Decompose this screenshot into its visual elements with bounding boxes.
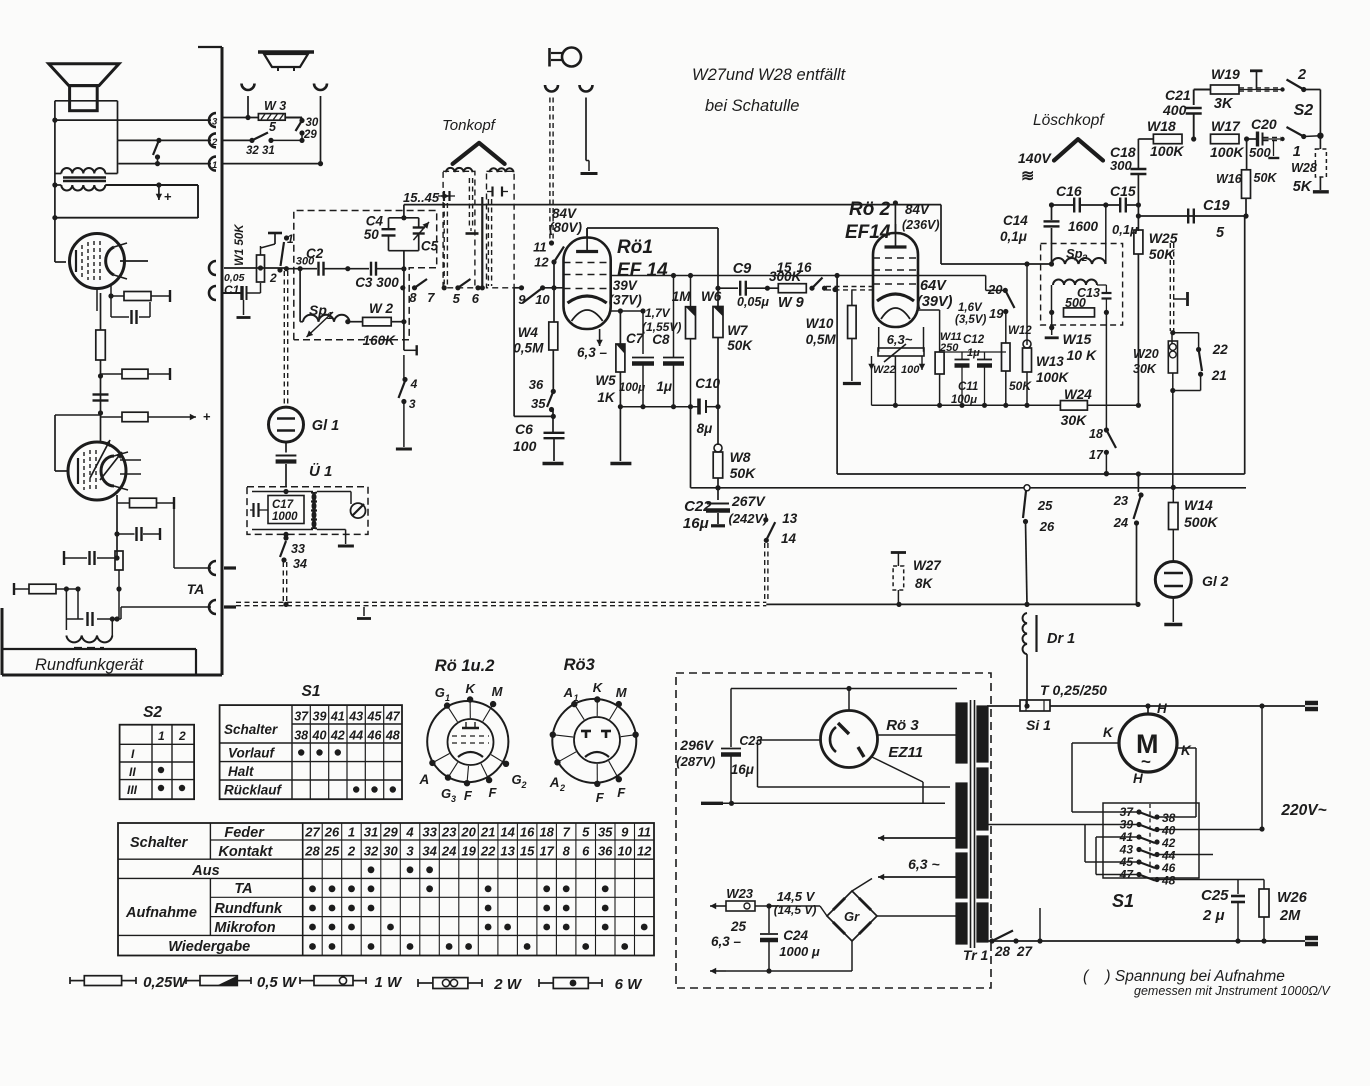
svg-text:2: 2 (1297, 67, 1306, 83)
svg-text:34: 34 (422, 844, 437, 859)
svg-text:C15: C15 (1110, 183, 1136, 199)
svg-text:50K: 50K (727, 338, 753, 353)
svg-text:W19: W19 (1211, 66, 1240, 82)
svg-text:31: 31 (364, 825, 378, 840)
svg-text:C12: C12 (963, 334, 985, 346)
svg-text:300: 300 (1110, 158, 1132, 173)
svg-text:30: 30 (306, 117, 319, 129)
svg-text:W26: W26 (1277, 890, 1308, 906)
svg-text:1: 1 (212, 160, 217, 171)
svg-text:W12: W12 (1008, 325, 1032, 337)
svg-text:Feder: Feder (224, 825, 265, 841)
svg-text:27: 27 (1016, 944, 1034, 959)
svg-text:10: 10 (617, 844, 632, 859)
svg-text:6,3 ~: 6,3 ~ (908, 856, 940, 872)
svg-text:C6: C6 (515, 421, 533, 437)
svg-text:C23: C23 (739, 734, 762, 748)
svg-text:50K: 50K (1009, 379, 1032, 393)
svg-text:TA: TA (234, 881, 252, 897)
svg-text:26: 26 (324, 825, 340, 840)
svg-text:28: 28 (994, 944, 1011, 959)
svg-text:16: 16 (520, 825, 535, 840)
svg-text:5K: 5K (1293, 179, 1313, 195)
svg-text:III: III (127, 783, 138, 797)
svg-text:(37V): (37V) (609, 292, 643, 307)
svg-text:9: 9 (621, 825, 629, 840)
svg-text:5: 5 (582, 825, 590, 840)
svg-text:S2: S2 (1294, 102, 1314, 119)
svg-text:≋: ≋ (1021, 168, 1034, 185)
svg-text:0,1μ: 0,1μ (1000, 229, 1027, 244)
svg-text:1: 1 (287, 232, 294, 246)
svg-text:100K: 100K (1150, 143, 1184, 159)
svg-text:296V: 296V (679, 737, 714, 753)
svg-text:500K: 500K (1184, 514, 1218, 530)
svg-text:W10: W10 (806, 316, 834, 331)
svg-text:14,5 V: 14,5 V (777, 889, 816, 904)
svg-text:F: F (617, 785, 626, 800)
svg-text:15..45: 15..45 (403, 190, 440, 205)
svg-text:20: 20 (987, 282, 1003, 297)
svg-text:M: M (492, 684, 504, 699)
svg-text:18: 18 (539, 825, 554, 840)
svg-text:2: 2 (521, 780, 527, 790)
svg-text:0,05μ: 0,05μ (737, 295, 769, 309)
svg-text:12: 12 (637, 844, 652, 859)
svg-text:35: 35 (598, 825, 613, 840)
svg-text:8K: 8K (915, 576, 934, 591)
svg-text:(287V): (287V) (676, 754, 715, 769)
svg-text:267V: 267V (731, 493, 766, 509)
svg-text:36: 36 (598, 844, 613, 859)
svg-text:12: 12 (534, 255, 549, 270)
svg-text:34: 34 (293, 557, 307, 571)
svg-text:21: 21 (480, 825, 495, 840)
svg-text:W14: W14 (1184, 497, 1213, 513)
svg-text:2 W: 2 W (493, 976, 523, 993)
svg-text:TA: TA (187, 581, 205, 597)
svg-text:(242V): (242V) (729, 511, 768, 526)
svg-text:38: 38 (294, 729, 308, 743)
svg-text:1: 1 (574, 693, 579, 703)
svg-text:0,5M: 0,5M (806, 332, 837, 347)
svg-text:Rö1: Rö1 (617, 237, 653, 258)
svg-text:26: 26 (1039, 519, 1055, 534)
svg-text:22: 22 (1212, 342, 1229, 357)
svg-text:16μ: 16μ (731, 762, 754, 777)
svg-text:100K: 100K (1036, 370, 1070, 385)
svg-text:1M: 1M (672, 289, 692, 304)
svg-text:30: 30 (383, 844, 398, 859)
svg-text:+: + (164, 189, 172, 204)
svg-text:W20: W20 (1133, 347, 1159, 361)
svg-text:40: 40 (312, 729, 327, 743)
svg-text:39V: 39V (613, 278, 638, 293)
svg-text:100μ: 100μ (619, 382, 645, 394)
svg-text:W27und W28 entfällt: W27und W28 entfällt (692, 66, 847, 84)
svg-text:Aufnahme: Aufnahme (125, 905, 197, 921)
svg-text:6: 6 (472, 291, 480, 306)
svg-text:2: 2 (559, 783, 565, 793)
svg-text:4: 4 (405, 825, 414, 840)
svg-text:Gr: Gr (844, 909, 860, 924)
svg-text:1μ: 1μ (967, 347, 980, 359)
svg-text:Rundfunk: Rundfunk (214, 901, 283, 917)
svg-text:C24: C24 (783, 928, 808, 943)
svg-text:EZ11: EZ11 (888, 744, 923, 761)
svg-text:C16: C16 (1056, 183, 1082, 199)
svg-text:1K: 1K (597, 390, 616, 405)
svg-text:8: 8 (409, 290, 417, 305)
svg-text:Tonkopf: Tonkopf (442, 117, 497, 134)
svg-text:1000 μ: 1000 μ (779, 944, 820, 959)
svg-text:17: 17 (539, 844, 554, 859)
svg-text:6,3~: 6,3~ (887, 332, 913, 347)
svg-text:K: K (466, 681, 477, 696)
svg-text:H: H (1157, 701, 1167, 716)
svg-text:31: 31 (262, 145, 275, 157)
svg-text:15: 15 (777, 260, 793, 275)
svg-text:Wiedergabe: Wiedergabe (168, 939, 250, 955)
svg-text:C3 300: C3 300 (355, 275, 399, 290)
svg-text:5: 5 (269, 120, 277, 134)
svg-text:37: 37 (294, 710, 309, 724)
svg-text:K: K (593, 680, 604, 695)
svg-text:220V~: 220V~ (1280, 802, 1326, 819)
svg-text:W22: W22 (873, 364, 896, 376)
svg-text:W27: W27 (913, 558, 942, 573)
svg-text:1600: 1600 (1068, 219, 1099, 234)
svg-text:1,7V: 1,7V (645, 306, 671, 320)
svg-text:2 μ: 2 μ (1202, 907, 1225, 924)
svg-text:6,3 –: 6,3 – (577, 345, 608, 360)
svg-text:1000: 1000 (272, 511, 298, 523)
svg-text:5: 5 (1216, 225, 1225, 241)
svg-text:32: 32 (246, 145, 259, 157)
svg-text:C20: C20 (1251, 116, 1277, 132)
svg-text:F: F (596, 790, 605, 805)
svg-text:48: 48 (1161, 874, 1176, 888)
svg-text:20: 20 (460, 825, 476, 840)
svg-text:Sp: Sp (309, 302, 327, 318)
svg-text:2: 2 (347, 844, 356, 859)
svg-text:2M: 2M (1279, 908, 1301, 924)
svg-text:21: 21 (1211, 368, 1227, 383)
svg-text:1: 1 (445, 693, 450, 703)
svg-text:C10: C10 (695, 376, 720, 391)
svg-text:160K: 160K (363, 333, 397, 348)
svg-text:W1 50K: W1 50K (234, 224, 246, 266)
svg-text:S2: S2 (143, 704, 162, 721)
svg-text:1,6V: 1,6V (958, 302, 983, 314)
svg-text:19: 19 (989, 306, 1004, 321)
svg-text:1μ: 1μ (656, 379, 672, 394)
svg-text:30K: 30K (1061, 412, 1088, 428)
svg-text:46: 46 (367, 729, 383, 743)
svg-text:W17: W17 (1211, 118, 1241, 134)
svg-text:Ü 1: Ü 1 (309, 463, 332, 480)
svg-text:(14,5 V): (14,5 V) (774, 903, 817, 917)
svg-text:W15: W15 (1063, 331, 1092, 347)
svg-text:500: 500 (1065, 296, 1086, 310)
svg-text:Aus: Aus (191, 863, 219, 879)
svg-text:W23: W23 (726, 886, 754, 901)
svg-text:Rö3: Rö3 (564, 656, 595, 674)
svg-text:(39V): (39V) (917, 294, 953, 310)
svg-text:Vorlauf: Vorlauf (228, 746, 276, 761)
svg-text:K: K (1103, 725, 1114, 740)
svg-text:24: 24 (441, 844, 457, 859)
svg-text:2: 2 (178, 729, 186, 743)
svg-text:S1: S1 (302, 683, 321, 700)
svg-text:10 K: 10 K (1067, 347, 1097, 363)
svg-text:1: 1 (1293, 144, 1301, 160)
svg-text:11: 11 (533, 240, 547, 255)
svg-text:0,5 W: 0,5 W (257, 974, 298, 991)
svg-text:5: 5 (453, 291, 461, 306)
svg-text:41: 41 (330, 710, 345, 724)
svg-text:Tr 1: Tr 1 (963, 947, 989, 963)
svg-text:36: 36 (529, 377, 544, 392)
svg-text:W28: W28 (1291, 161, 1317, 175)
svg-text:Rundfunkgerät: Rundfunkgerät (35, 656, 145, 674)
svg-text:W8: W8 (730, 449, 751, 465)
svg-text:W 2: W 2 (369, 301, 393, 316)
svg-text:100K: 100K (1210, 144, 1244, 160)
svg-text:7: 7 (563, 825, 571, 840)
svg-text:(236V): (236V) (902, 218, 940, 232)
svg-text:( ) Spannung bei Aufnahme: ( ) Spannung bei Aufnahme (1083, 968, 1285, 985)
svg-text:100: 100 (901, 364, 920, 376)
svg-text:28: 28 (304, 844, 320, 859)
svg-text:A: A (549, 775, 560, 790)
svg-text:16μ: 16μ (683, 515, 709, 532)
svg-text:T 0,25/250: T 0,25/250 (1040, 682, 1107, 698)
svg-text:44: 44 (348, 729, 363, 743)
svg-text:2: 2 (269, 271, 277, 285)
svg-text:6,3 –: 6,3 – (711, 934, 742, 949)
svg-text:19: 19 (461, 844, 476, 859)
svg-text:33: 33 (291, 542, 305, 556)
svg-text:4: 4 (410, 377, 418, 391)
svg-text:7: 7 (427, 290, 435, 305)
svg-text:43: 43 (348, 710, 363, 724)
svg-text:13: 13 (500, 844, 515, 859)
svg-text:W 3: W 3 (264, 99, 286, 113)
svg-text:22: 22 (480, 844, 496, 859)
svg-text:Löschkopf: Löschkopf (1033, 112, 1105, 129)
svg-text:25: 25 (324, 844, 340, 859)
svg-text:33: 33 (422, 825, 437, 840)
svg-text:G: G (441, 786, 451, 801)
svg-text:C25: C25 (1201, 887, 1229, 904)
svg-text:100: 100 (513, 438, 537, 454)
svg-text:C14: C14 (1003, 213, 1028, 228)
svg-text:6: 6 (582, 844, 590, 859)
svg-text:(1,55V): (1,55V) (642, 320, 681, 334)
svg-text:84V: 84V (905, 202, 930, 217)
svg-text:EF14: EF14 (845, 222, 891, 243)
svg-text:Rö 2: Rö 2 (849, 199, 891, 220)
svg-text:W13: W13 (1036, 354, 1064, 369)
svg-text:Dr 1: Dr 1 (1047, 631, 1075, 647)
svg-text:0,5M: 0,5M (513, 341, 544, 356)
svg-text:24: 24 (1113, 515, 1129, 530)
svg-text:C17: C17 (272, 499, 294, 511)
svg-text:45: 45 (367, 710, 383, 724)
svg-text:17: 17 (1089, 448, 1104, 462)
svg-text:A: A (563, 685, 573, 700)
svg-text:8: 8 (563, 844, 571, 859)
svg-text:A: A (419, 772, 430, 787)
svg-text:~: ~ (1141, 752, 1151, 771)
svg-text:29: 29 (303, 129, 317, 141)
svg-text:11: 11 (637, 825, 651, 840)
svg-text:8μ: 8μ (697, 421, 713, 436)
svg-text:84V: 84V (552, 206, 577, 221)
svg-text:47: 47 (385, 710, 401, 724)
svg-text:W 9: W 9 (778, 295, 804, 311)
svg-text:H: H (1133, 771, 1143, 786)
svg-text:C9: C9 (733, 261, 752, 277)
svg-text:23: 23 (441, 825, 457, 840)
svg-text:Kontakt: Kontakt (218, 844, 273, 860)
svg-text:48: 48 (385, 729, 400, 743)
svg-text:0,25W: 0,25W (143, 974, 188, 991)
svg-text:23: 23 (1113, 493, 1129, 508)
svg-text:S1: S1 (1112, 891, 1134, 911)
svg-text:Rö 1u.2: Rö 1u.2 (435, 657, 495, 675)
svg-text:W5: W5 (595, 373, 616, 388)
svg-text:39: 39 (313, 710, 327, 724)
svg-text:W18: W18 (1147, 118, 1176, 134)
svg-text:bei Schatulle: bei Schatulle (705, 97, 799, 115)
svg-text:F: F (489, 785, 498, 800)
svg-text:C2: C2 (306, 246, 324, 261)
svg-text:W7: W7 (727, 323, 749, 338)
svg-text:(80V): (80V) (549, 220, 583, 235)
svg-text:140V: 140V (1018, 150, 1052, 166)
svg-text:gemessen mit Jnstrument 1000Ω/: gemessen mit Jnstrument 1000Ω/V (1134, 984, 1331, 998)
svg-text:3K: 3K (1214, 96, 1234, 112)
svg-text:Schalter: Schalter (224, 722, 278, 737)
svg-text:W16: W16 (1216, 172, 1243, 186)
svg-text:15: 15 (520, 844, 535, 859)
svg-text:3: 3 (406, 844, 414, 859)
svg-text:3: 3 (451, 794, 456, 804)
svg-text:14: 14 (500, 825, 515, 840)
svg-text:(3,5V): (3,5V) (955, 314, 986, 326)
svg-text:18: 18 (1089, 427, 1103, 441)
svg-text:64V: 64V (920, 278, 947, 294)
svg-text:W4: W4 (518, 325, 539, 340)
svg-text:32: 32 (364, 844, 379, 859)
svg-text:K: K (1181, 743, 1192, 758)
svg-text:29: 29 (382, 825, 398, 840)
svg-text:Mikrofon: Mikrofon (214, 920, 275, 936)
svg-text:27: 27 (304, 825, 320, 840)
svg-text:C5: C5 (421, 239, 439, 254)
svg-text:30K: 30K (1133, 362, 1157, 376)
svg-text:1: 1 (158, 729, 165, 743)
svg-text:10: 10 (535, 292, 550, 307)
svg-text:25: 25 (730, 919, 747, 934)
svg-text:25: 25 (1037, 498, 1053, 513)
svg-text:C21: C21 (1165, 87, 1191, 103)
svg-text:50K: 50K (1254, 171, 1278, 185)
svg-text:16: 16 (797, 260, 813, 275)
svg-text:G: G (435, 685, 445, 700)
svg-text:3: 3 (212, 117, 218, 128)
svg-text:Rö 3: Rö 3 (886, 717, 919, 734)
svg-text:1 W: 1 W (375, 974, 404, 991)
svg-text:M: M (616, 685, 628, 700)
svg-text:400: 400 (1162, 102, 1187, 118)
svg-text:C22: C22 (684, 498, 712, 515)
svg-text:C19: C19 (1203, 198, 1230, 214)
svg-text:W24: W24 (1064, 387, 1092, 402)
svg-text:6 W: 6 W (615, 976, 644, 993)
svg-text:II: II (129, 765, 136, 779)
svg-text:Halt: Halt (228, 764, 254, 779)
svg-text:35: 35 (531, 396, 546, 411)
svg-text:50K: 50K (730, 465, 757, 481)
svg-text:50K: 50K (1149, 246, 1176, 262)
svg-text:9: 9 (518, 292, 526, 307)
svg-text:2: 2 (211, 137, 218, 148)
svg-text:G: G (512, 772, 522, 787)
svg-text:C11: C11 (958, 381, 978, 393)
svg-text:42: 42 (330, 729, 345, 743)
svg-text:F: F (464, 788, 473, 803)
svg-text:+: + (203, 409, 211, 424)
svg-text:Si 1: Si 1 (1026, 717, 1051, 733)
svg-text:Schalter: Schalter (130, 835, 189, 851)
svg-text:50: 50 (364, 227, 380, 242)
svg-text:C1: C1 (224, 283, 240, 297)
svg-text:3: 3 (409, 397, 416, 411)
svg-text:1: 1 (327, 311, 333, 322)
svg-text:14: 14 (781, 531, 797, 546)
svg-text:13: 13 (782, 511, 798, 526)
svg-text:Rücklauf: Rücklauf (224, 783, 283, 798)
svg-text:47: 47 (1119, 868, 1135, 882)
svg-text:C8: C8 (652, 332, 670, 347)
svg-text:Gl 1: Gl 1 (312, 418, 339, 434)
svg-text:1: 1 (348, 825, 355, 840)
svg-text:Gl 2: Gl 2 (1202, 573, 1229, 589)
svg-text:500: 500 (1249, 145, 1271, 160)
